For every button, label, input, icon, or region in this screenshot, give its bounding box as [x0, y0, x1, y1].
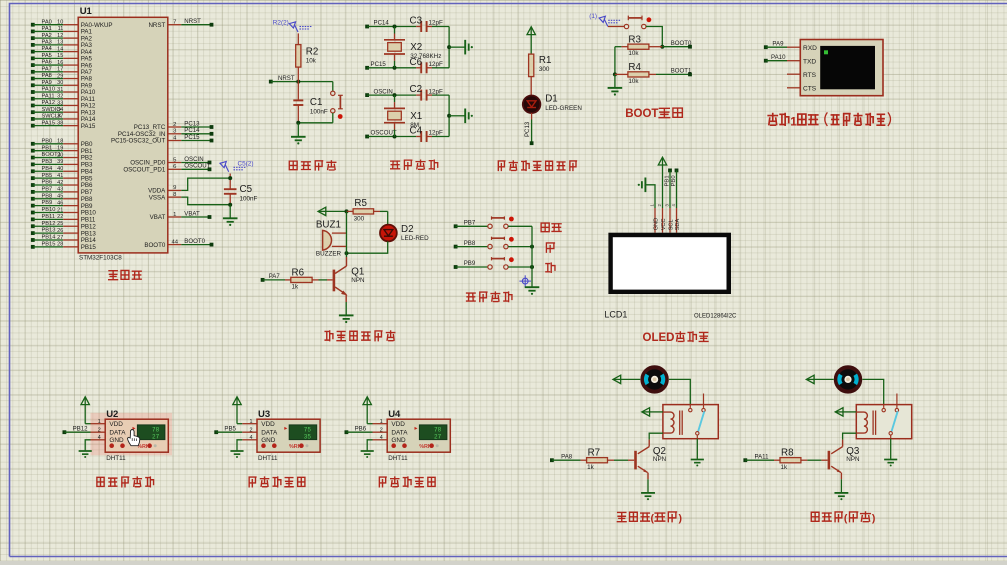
net BOOT0 wire [662, 40, 692, 49]
svg-text:4: 4 [250, 435, 253, 441]
capacitor C2 12pF [410, 84, 450, 101]
wire/net PB5 pin 41 (left of U1) [31, 173, 93, 183]
svg-text:10: 10 [57, 20, 63, 26]
wire right bus (X1) [447, 95, 465, 136]
svg-text:78: 78 [152, 426, 160, 433]
svg-text:PB10: PB10 [42, 207, 56, 213]
svg-text:NRST: NRST [148, 22, 165, 29]
ground (BOOT circuit) [608, 88, 623, 96]
svg-text:300: 300 [539, 66, 550, 73]
transistor Q3 NPN [828, 440, 860, 480]
svg-text:PB12: PB12 [42, 221, 56, 227]
svg-text:D1: D1 [545, 93, 558, 104]
node PA11 terminal [743, 453, 769, 462]
svg-text:U3: U3 [258, 409, 270, 420]
label 设置 [541, 223, 561, 232]
svg-text:BOOT: BOOT [625, 108, 658, 120]
svg-text:13: 13 [57, 40, 63, 46]
wire D2 to bottom node [345, 241, 388, 255]
wire/net PA8 pin 29 (left of U1) [31, 73, 93, 83]
svg-text:R4: R4 [628, 62, 641, 73]
svg-text:(: ( [844, 512, 848, 524]
svg-text:C5(2): C5(2) [238, 161, 254, 168]
svg-text:R5: R5 [354, 198, 367, 209]
buzzer BUZ1 [316, 219, 347, 257]
ground (keys) [525, 287, 540, 295]
push button (PB9) [456, 257, 514, 269]
wire/net PB14 pin 27 (left of U1) [31, 235, 96, 245]
svg-text:12pF: 12pF [429, 88, 444, 95]
svg-text:BUZ1: BUZ1 [316, 219, 341, 230]
wire keys bus [531, 226, 533, 286]
relay (Q2 circuit) [663, 394, 718, 439]
svg-text:27: 27 [57, 235, 63, 241]
selection highlight (U2) [91, 413, 173, 456]
svg-text:12pF: 12pF [429, 130, 444, 137]
power symbol (U3) [233, 397, 241, 424]
svg-text:PC15: PC15 [184, 134, 200, 141]
label 继电器 (Q2) [617, 512, 682, 524]
svg-text:PA5: PA5 [42, 53, 52, 59]
svg-text:PB1: PB1 [42, 145, 53, 151]
wire/net PB8 pin 45 (left of U1) [31, 193, 93, 203]
svg-text:45: 45 [57, 194, 63, 200]
svg-text:PB7: PB7 [42, 186, 53, 192]
node PB8 terminal [454, 240, 476, 249]
svg-text:26: 26 [57, 228, 63, 234]
svg-text:27: 27 [434, 434, 442, 441]
label 继电器 (Q3) [811, 512, 875, 524]
pin 7 NRST (right of U1) [148, 18, 213, 29]
svg-text:NRST: NRST [278, 75, 295, 82]
svg-text:300: 300 [354, 215, 365, 222]
svg-text:D2: D2 [401, 224, 414, 235]
svg-text:X1: X1 [410, 111, 422, 122]
svg-text:43: 43 [57, 187, 63, 193]
svg-text:PB11: PB11 [42, 214, 56, 220]
label 主芯片 [109, 270, 142, 279]
wire/net PA11 pin 32 (left of U1) [31, 93, 96, 103]
node OSCOUT terminal [365, 130, 397, 139]
pin 44 BOOT0 (right of U1) [144, 238, 213, 249]
svg-text:PA7: PA7 [269, 273, 281, 280]
pin 5 OSCIN_PD0 (right of U1) [130, 156, 211, 167]
mouse hand cursor [128, 430, 140, 446]
node PA8 terminal [550, 453, 573, 462]
svg-text:BUZZER: BUZZER [316, 251, 342, 258]
capacitor C3 12pF [410, 16, 450, 33]
svg-text:R1: R1 [539, 55, 552, 66]
resistor R4 10k [615, 62, 656, 85]
svg-text:10k: 10k [306, 58, 317, 65]
push button (reset) [331, 82, 343, 123]
wire relay to ground (Q2) [696, 439, 698, 459]
power symbol (motor Q3) [806, 375, 833, 383]
ground (Q2 emitter) [641, 493, 655, 500]
LED D2 LED-RED [380, 224, 429, 242]
svg-text:PA3: PA3 [42, 39, 52, 45]
power symbol (motor Q2) [613, 375, 640, 383]
ground (U4) [361, 451, 374, 458]
svg-text:OLED12864I2C: OLED12864I2C [694, 314, 737, 320]
wire VDD (U2) [85, 423, 105, 425]
svg-text:R3: R3 [628, 34, 641, 45]
OLED pin stubs and labels [650, 203, 682, 233]
wire/net PA12 pin 33 (left of U1) [31, 100, 96, 110]
wire Q3 emitter to ground [840, 479, 842, 492]
svg-text:C5: C5 [240, 184, 253, 195]
svg-text:PA8: PA8 [42, 73, 52, 79]
power symbol (U2) [81, 397, 89, 424]
svg-text:17: 17 [57, 67, 63, 73]
svg-text:LED-RED: LED-RED [401, 235, 429, 242]
wire/net PB4 pin 40 (left of U1) [31, 166, 93, 176]
label 加 [546, 243, 554, 252]
svg-text:14: 14 [57, 46, 63, 52]
svg-text:DATA: DATA [391, 430, 408, 437]
wire PA10-TXD [766, 60, 801, 62]
wire/net PA6 pin 16 (left of U1) [31, 60, 93, 70]
svg-text:R7: R7 [588, 447, 601, 458]
svg-text:34: 34 [57, 107, 63, 113]
svg-text:BOOT1: BOOT1 [671, 68, 692, 75]
wire GND (U3) [237, 440, 257, 451]
resistor R6 1k [263, 267, 333, 290]
svg-text:R6: R6 [292, 267, 305, 278]
svg-text:100nF: 100nF [240, 196, 258, 203]
resistor R7 1k [552, 447, 634, 471]
wire DATA (U4) [346, 431, 387, 433]
node PB5 terminal [214, 426, 236, 434]
indicator dots (U2) [109, 443, 156, 449]
svg-text:35: 35 [304, 434, 312, 441]
svg-text:1: 1 [790, 114, 797, 128]
wire OLED GND [646, 185, 655, 203]
svg-text:VDD: VDD [261, 421, 275, 428]
node PC15 terminal [365, 61, 386, 70]
display (U3) [284, 425, 316, 441]
svg-text:PA8: PA8 [561, 453, 573, 460]
sensor U4 DHT11 body [380, 409, 451, 462]
capacitor C5 100nF [224, 174, 258, 207]
pin RTS stub [787, 73, 800, 75]
wire PB7 to bus [508, 225, 532, 227]
svg-text:PB3: PB3 [42, 159, 53, 165]
svg-text:1: 1 [250, 419, 253, 425]
svg-text:VDD: VDD [109, 421, 123, 428]
node PB9 terminal [454, 260, 476, 269]
svg-text:PB6: PB6 [42, 180, 53, 186]
capacitor C1 100nF [293, 82, 328, 123]
svg-text:LCD1: LCD1 [604, 310, 627, 320]
display (U2) [133, 425, 165, 441]
origin marker (blue crosshair) [519, 275, 531, 287]
svg-text:PC15-OSC32_OUT: PC15-OSC32_OUT [111, 138, 166, 145]
svg-text:VBAT: VBAT [184, 210, 200, 217]
ground (X2 bus) [465, 40, 473, 55]
svg-text:PA2: PA2 [42, 33, 52, 39]
svg-text:PA9: PA9 [772, 40, 784, 47]
wire PC15 row [367, 66, 421, 70]
svg-text:75: 75 [304, 426, 312, 433]
ground (relay Q3) [884, 460, 897, 467]
capacitor C4 12pF [410, 126, 450, 143]
svg-text:PB4: PB4 [42, 166, 53, 172]
svg-text:R2(2): R2(2) [273, 20, 289, 27]
svg-text:7: 7 [173, 20, 176, 26]
wire/net PB6 pin 42 (left of U1) [31, 180, 93, 190]
svg-text:PC14: PC14 [374, 20, 390, 27]
display (U4) [415, 425, 447, 441]
wire/net PA15 pin 38 (left of U1) [31, 120, 96, 130]
wire/net PA1 pin 11 (left of U1) [31, 26, 93, 36]
svg-text:PB9: PB9 [42, 200, 53, 206]
label STM32F103C8 [79, 255, 122, 262]
label BOOT电路 [625, 108, 682, 120]
svg-text:U2: U2 [106, 409, 118, 420]
svg-text:19: 19 [57, 145, 63, 151]
wire/net PA3 pin 13 (left of U1) [31, 39, 93, 49]
svg-text:DHT11: DHT11 [258, 455, 278, 462]
svg-text:30: 30 [57, 80, 63, 86]
svg-text:33: 33 [57, 100, 63, 106]
svg-text:PA15: PA15 [42, 120, 56, 126]
label 温湿度模块 (U3) [249, 477, 305, 487]
node PC14 terminal [365, 20, 389, 29]
pin 9 VDDA wire [148, 178, 230, 195]
wire to ground (reset) [297, 123, 299, 137]
svg-text:10k: 10k [628, 78, 639, 85]
wire/net PA7 pin 17 (left of U1) [31, 66, 93, 76]
svg-text:VDD: VDD [391, 421, 405, 428]
svg-text:1: 1 [380, 419, 383, 425]
svg-text:31: 31 [57, 87, 63, 93]
svg-text:DHT11: DHT11 [106, 455, 126, 462]
svg-text:PB1: PB1 [664, 175, 670, 186]
svg-text:4: 4 [380, 435, 383, 441]
svg-text:PA0: PA0 [42, 19, 52, 25]
svg-text:4: 4 [98, 435, 101, 441]
svg-text:9: 9 [173, 185, 176, 191]
transistor Q1 NPN [333, 253, 365, 302]
svg-text:12pF: 12pF [429, 20, 444, 27]
svg-text:18: 18 [57, 139, 63, 145]
svg-text:39: 39 [57, 159, 63, 165]
wire DATA (U2) [64, 431, 105, 433]
pin 4 PC15-OSC32_OUT (right of U1) [111, 134, 213, 145]
node OSCIN terminal [365, 88, 393, 97]
svg-text:VCC: VCC [661, 218, 667, 230]
resistor R3 10k [615, 34, 662, 57]
wire GND (U2) [85, 440, 105, 451]
wire/net SWCLK pin 37 (left of U1) [31, 114, 96, 124]
wire/net PB10 pin 21 (left of U1) [31, 207, 96, 217]
svg-text:DATA: DATA [261, 430, 278, 437]
wire/net PA10 pin 31 (left of U1) [31, 87, 96, 97]
svg-text:STM32F103C8: STM32F103C8 [79, 255, 122, 262]
resistor R2 10k [296, 33, 319, 81]
svg-text:12pF: 12pF [429, 61, 444, 68]
wire motor to relay (Q3) [862, 379, 883, 404]
ground (X1 bus) [465, 109, 473, 124]
wire button to BOOT0 node [646, 27, 664, 49]
svg-text:100nF: 100nF [310, 108, 328, 115]
node PB1 terminal (SCL) [664, 169, 672, 204]
node PA10 terminal [764, 54, 786, 63]
wire/net PA5 pin 15 (left of U1) [31, 53, 93, 63]
svg-text:OSCIN: OSCIN [374, 88, 393, 95]
label 温湿度模块 (U2) [97, 477, 154, 487]
svg-text:Q1: Q1 [351, 266, 364, 277]
op-amp U1 body (STM32F103C8) [78, 17, 168, 253]
svg-text:2: 2 [173, 122, 176, 128]
svg-text:BOOT0: BOOT0 [184, 238, 205, 245]
svg-text:28: 28 [57, 242, 63, 248]
svg-text:RTS: RTS [803, 72, 817, 79]
cursor label (1) [589, 13, 620, 26]
svg-text:27: 27 [152, 434, 160, 441]
svg-text:42: 42 [57, 180, 63, 186]
wire/net SWDIO pin 34 (left of U1) [31, 107, 96, 117]
node PB6 terminal [345, 426, 367, 434]
wire/net BOOT1 pin 20 (left of U1) [31, 152, 93, 162]
svg-text:PB14: PB14 [42, 235, 56, 241]
push button (PB7) [456, 216, 514, 228]
wire DATA (U3) [216, 431, 257, 433]
svg-text:25: 25 [57, 221, 63, 227]
svg-text:PB15: PB15 [42, 241, 56, 247]
wire C5 to ground [229, 205, 231, 218]
motor (Q3 circuit) [836, 367, 860, 391]
wire buzzer bus [346, 211, 348, 253]
svg-text:38: 38 [57, 120, 63, 126]
svg-text:PB15: PB15 [81, 244, 97, 251]
svg-text:BOOT0: BOOT0 [671, 40, 692, 47]
wire button to C1 bottom [296, 121, 333, 125]
svg-text:12: 12 [57, 33, 63, 39]
svg-text:PB9: PB9 [464, 260, 476, 267]
wire/net PB3 pin 39 (left of U1) [31, 159, 93, 169]
svg-text:C1: C1 [310, 97, 323, 108]
svg-text:PB0: PB0 [42, 138, 53, 144]
wire PA9-RXD [766, 46, 801, 48]
label 串口1窗口（模拟手机端） [768, 112, 890, 128]
svg-text:20: 20 [57, 152, 63, 158]
label OLED显示屏 [643, 332, 709, 344]
LED D1 LED-GREEN [523, 93, 583, 113]
wire/net PB11 pin 22 (left of U1) [31, 214, 96, 224]
svg-text:4: 4 [671, 204, 676, 207]
svg-text:PA10: PA10 [771, 54, 786, 61]
svg-text:VBAT: VBAT [150, 214, 166, 221]
svg-text:29: 29 [57, 73, 63, 79]
svg-text:PB0: PB0 [671, 175, 677, 187]
pin 8 VSSA wire [149, 192, 230, 205]
wire PC14 row [367, 25, 421, 29]
svg-text:PA11: PA11 [755, 453, 770, 460]
svg-text:RXD: RXD [803, 45, 817, 52]
wire/net PB7 pin 43 (left of U1) [31, 186, 93, 196]
label 独立按键 [467, 292, 512, 302]
svg-text:PB5: PB5 [42, 173, 53, 179]
node PB0 terminal (SDA) [671, 169, 679, 204]
pin 6 OSCOUT_PD1 (right of U1) [123, 163, 211, 174]
wire OSCOUT row [367, 135, 421, 139]
svg-text:21: 21 [57, 207, 63, 213]
svg-text:GND: GND [654, 218, 660, 230]
wire D1 to PC13 terminal [524, 113, 533, 145]
svg-text:BOOT0: BOOT0 [144, 242, 166, 249]
svg-text:C2: C2 [410, 84, 423, 95]
wire Q1 emitter to ground [345, 302, 347, 315]
label 温湿度模块 (U4) [379, 477, 435, 487]
svg-text:CTS: CTS [803, 86, 817, 93]
wire NRST horizontal [271, 80, 333, 84]
svg-text:32: 32 [57, 94, 63, 100]
node NRST terminal (reset circuit) [269, 75, 295, 84]
wire Q2 emitter to ground [647, 479, 649, 492]
svg-text:NPN: NPN [846, 456, 860, 463]
crystal X2 32.768KHz [384, 27, 441, 68]
wire OSCIN row [367, 93, 421, 97]
svg-text:PA11: PA11 [42, 93, 55, 99]
wire/net PA0 pin 10 (left of U1) [31, 19, 113, 29]
svg-text:C3: C3 [410, 16, 423, 27]
svg-text:PA15: PA15 [81, 123, 96, 130]
indicator dots (U3) [261, 443, 308, 449]
wire/net PB9 pin 46 (left of U1) [31, 200, 93, 210]
svg-text:SDA: SDA [675, 219, 681, 231]
svg-text:GND: GND [261, 437, 276, 444]
wire/net PA9 pin 30 (left of U1) [31, 80, 93, 90]
svg-text:GND: GND [109, 437, 124, 444]
node PA9 terminal [764, 40, 784, 49]
svg-text:): ) [872, 512, 876, 524]
ground (U3) [230, 451, 243, 458]
svg-text:R8: R8 [781, 447, 794, 458]
svg-text:GND: GND [391, 437, 406, 444]
svg-text:NPN: NPN [351, 277, 365, 284]
svg-text:OSCOUT_PD1: OSCOUT_PD1 [123, 167, 166, 174]
svg-text:32.768KHz: 32.768KHz [410, 53, 441, 60]
wire right bus (X2) [447, 27, 465, 68]
svg-text:22: 22 [57, 214, 63, 220]
svg-text:PA1: PA1 [42, 26, 52, 32]
wire/net PA2 pin 12 (left of U1) [31, 33, 93, 43]
svg-text:TXD: TXD [803, 58, 816, 65]
svg-text:PA4: PA4 [42, 46, 52, 52]
label 减 [546, 263, 555, 272]
svg-text:2: 2 [657, 204, 662, 207]
svg-text:PB8: PB8 [42, 193, 53, 199]
svg-text:R2: R2 [306, 47, 319, 58]
svg-text:41: 41 [57, 173, 63, 179]
node PA7 terminal [261, 273, 281, 282]
cursor label C5(2) [220, 161, 253, 172]
label 晶振电路 [391, 160, 438, 169]
wire VDD (U3) [237, 423, 257, 425]
wire/net PB12 pin 25 (left of U1) [31, 221, 96, 231]
svg-text:2: 2 [250, 427, 253, 433]
svg-text:DHT11: DHT11 [388, 455, 408, 462]
svg-text:10k: 10k [628, 50, 639, 57]
svg-text:(: ( [651, 512, 655, 524]
svg-text:PA10: PA10 [42, 87, 56, 93]
resistor R1 300 [529, 54, 552, 96]
svg-text:LED-GREEN: LED-GREEN [545, 105, 582, 112]
svg-text:PB7: PB7 [464, 220, 476, 227]
power symbol (alarm) [318, 207, 349, 215]
